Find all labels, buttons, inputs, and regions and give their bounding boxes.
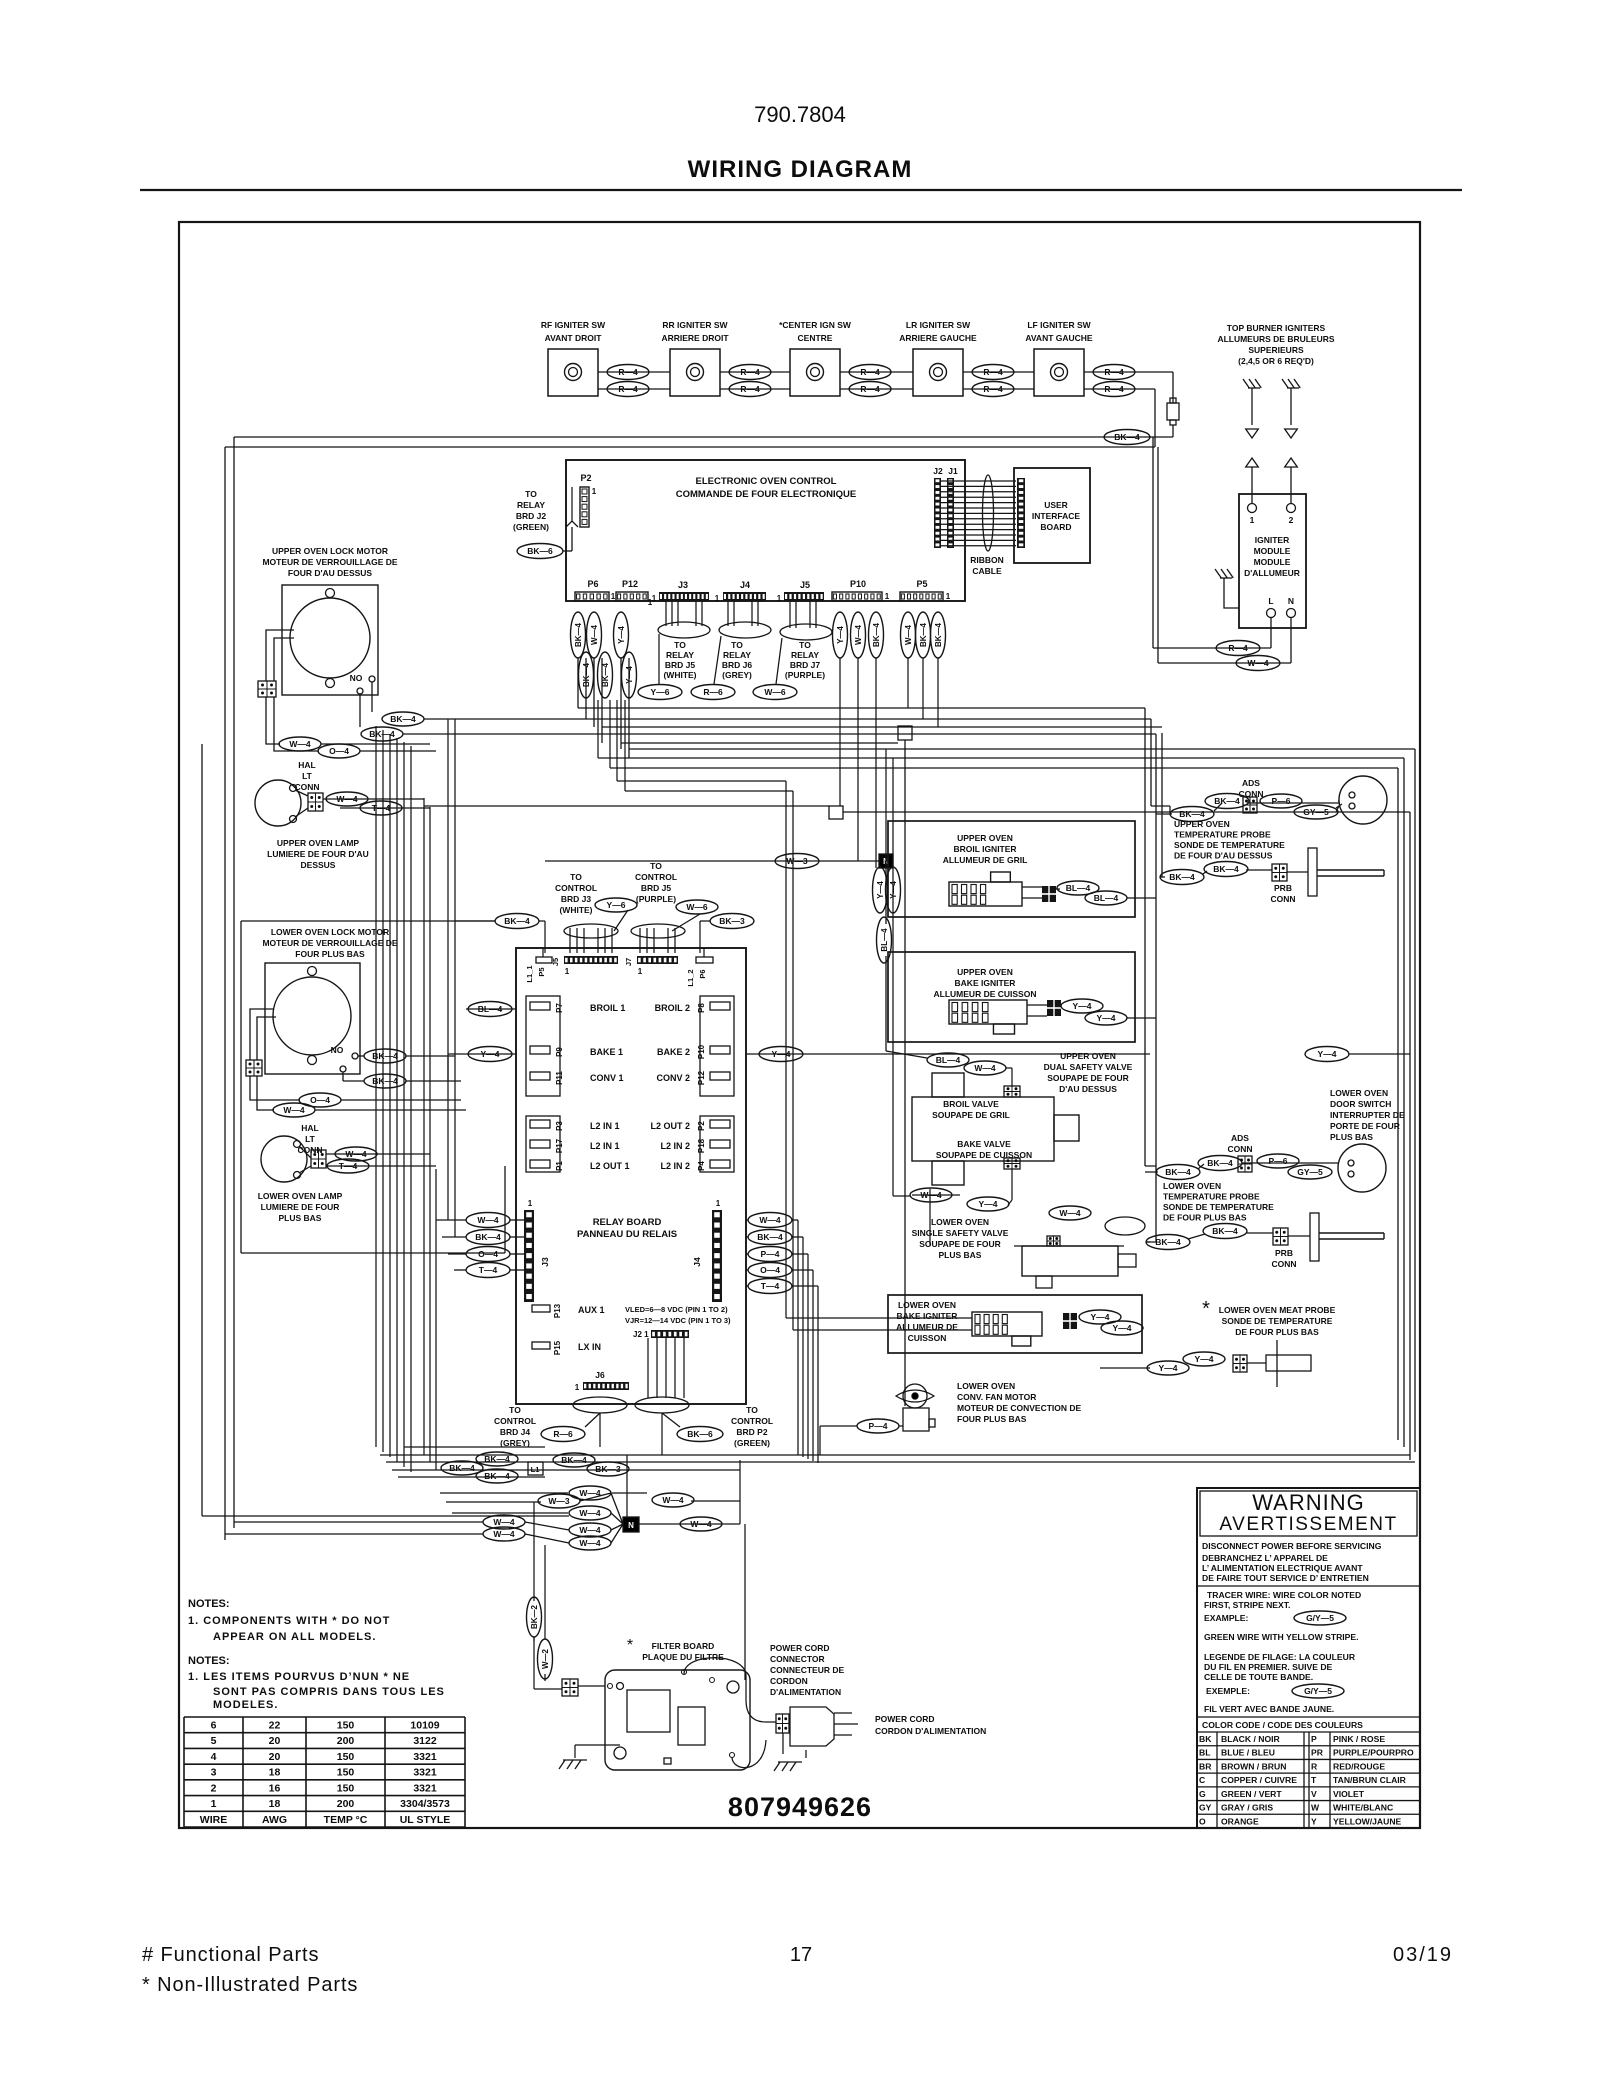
svg-text:GY: GY: [1199, 1803, 1212, 1813]
svg-text:POWER CORD: POWER CORD: [770, 1643, 830, 1653]
svg-text:1: 1: [638, 967, 643, 976]
svg-text:SONT PAS COMPRIS DANS TOUS LES: SONT PAS COMPRIS DANS TOUS LES: [213, 1686, 445, 1698]
svg-text:BK—4: BK—4: [1114, 432, 1140, 442]
svg-text:P4: P4: [697, 1161, 706, 1171]
svg-text:BAKE IGNITER: BAKE IGNITER: [955, 978, 1016, 988]
svg-text:UPPER OVEN: UPPER OVEN: [957, 833, 1013, 843]
svg-text:R—4: R—4: [618, 367, 638, 377]
svg-text:BROIL IGNITER: BROIL IGNITER: [953, 844, 1016, 854]
svg-text:Y—4: Y—4: [1091, 1312, 1110, 1322]
svg-text:*: *: [1202, 1298, 1210, 1320]
svg-text:P6: P6: [587, 579, 598, 589]
svg-text:1. COMPONENTS WITH * DO NO: 1. COMPONENTS WITH * DO NOT: [188, 1615, 390, 1627]
svg-text:BRD J3: BRD J3: [561, 894, 592, 904]
svg-text:W—4: W—4: [477, 1215, 499, 1225]
svg-text:TEMPERATURE PROBE: TEMPERATURE PROBE: [1163, 1192, 1260, 1202]
svg-text:CONTROL: CONTROL: [635, 872, 677, 882]
svg-text:FIRST, STRIPE NEXT.: FIRST, STRIPE NEXT.: [1204, 1600, 1290, 1610]
svg-text:LX IN: LX IN: [578, 1342, 601, 1352]
svg-text:LOWER OVEN: LOWER OVEN: [1330, 1088, 1388, 1098]
svg-text:W—4: W—4: [579, 1525, 601, 1535]
svg-text:DE FOUR PLUS BAS: DE FOUR PLUS BAS: [1163, 1213, 1247, 1223]
svg-text:VIOLET: VIOLET: [1333, 1789, 1365, 1799]
svg-text:L2 IN 1: L2 IN 1: [590, 1121, 620, 1131]
svg-text:T—4: T—4: [761, 1281, 780, 1291]
svg-text:20: 20: [269, 1751, 281, 1763]
svg-text:L: L: [1268, 596, 1273, 606]
svg-text:HAL: HAL: [301, 1123, 318, 1133]
svg-text:CONN: CONN: [1270, 894, 1295, 904]
svg-text:DE FOUR D'AU DESSUS: DE FOUR D'AU DESSUS: [1174, 851, 1273, 861]
svg-text:W—6: W—6: [764, 687, 786, 697]
svg-text:PLUS BAS: PLUS BAS: [939, 1250, 982, 1260]
svg-text:G: G: [1199, 1789, 1206, 1799]
svg-text:LOWER OVEN MEAT PROBE: LOWER OVEN MEAT PROBE: [1219, 1305, 1336, 1315]
svg-text:N: N: [628, 1521, 634, 1530]
svg-text:GY—5: GY—5: [1303, 807, 1329, 817]
svg-text:BK—4: BK—4: [504, 916, 530, 926]
svg-text:BK—4: BK—4: [1169, 872, 1195, 882]
svg-text:BLUE / BLEU: BLUE / BLEU: [1221, 1748, 1275, 1758]
svg-text:D'ALIMENTATION: D'ALIMENTATION: [770, 1687, 841, 1697]
svg-text:CONTROL: CONTROL: [494, 1416, 536, 1426]
svg-text:Y—4: Y—4: [1113, 1323, 1132, 1333]
svg-text:DESSUS: DESSUS: [301, 860, 336, 870]
svg-text:BL—4: BL—4: [936, 1055, 961, 1065]
svg-text:SONDE DE TEMPERATURE: SONDE DE TEMPERATURE: [1222, 1316, 1333, 1326]
svg-text:INTERFACE: INTERFACE: [1032, 511, 1081, 521]
svg-text:BK—6: BK—6: [527, 546, 553, 556]
svg-text:RF IGNITER SW: RF IGNITER SW: [541, 320, 606, 330]
svg-text:W—3: W—3: [548, 1496, 570, 1506]
svg-text:Y—6: Y—6: [607, 900, 626, 910]
svg-text:1. LES ITEMS POURVUS D’NUN: 1. LES ITEMS POURVUS D’NUN * NE: [188, 1671, 410, 1683]
svg-text:AVANT DROIT: AVANT DROIT: [545, 333, 603, 343]
svg-text:BL—4: BL—4: [478, 1004, 503, 1014]
svg-text:UL STYLE: UL STYLE: [400, 1814, 451, 1826]
svg-text:RELAY: RELAY: [517, 500, 545, 510]
svg-text:LR IGNITER SW: LR IGNITER SW: [906, 320, 971, 330]
svg-text:MODULE: MODULE: [1254, 546, 1291, 556]
svg-text:LEGENDE DE FILAGE: LA: LEGENDE DE FILAGE: LA COULEUR: [1204, 1652, 1356, 1662]
svg-text:CONN: CONN: [294, 782, 319, 792]
svg-text:GY—5: GY—5: [1297, 1167, 1323, 1177]
svg-text:150: 150: [337, 1767, 355, 1779]
svg-text:L1_1: L1_1: [525, 965, 534, 982]
svg-text:P—4: P—4: [869, 1421, 888, 1431]
svg-text:J3: J3: [678, 580, 688, 590]
svg-text:150: 150: [337, 1751, 355, 1763]
svg-text:1: 1: [716, 1199, 721, 1208]
svg-text:PRB: PRB: [1275, 1248, 1293, 1258]
svg-text:Y—4: Y—4: [1159, 1363, 1178, 1373]
svg-text:BROIL 2: BROIL 2: [655, 1003, 690, 1013]
svg-text:RR IGNITER SW: RR IGNITER SW: [662, 320, 728, 330]
svg-text:TAN/BRUN CLAIR: TAN/BRUN CLAIR: [1333, 1775, 1407, 1785]
svg-text:R—4: R—4: [1104, 367, 1124, 377]
svg-text:Y—4: Y—4: [1073, 1001, 1092, 1011]
svg-text:CONNECTOR: CONNECTOR: [770, 1654, 825, 1664]
svg-text:T—4: T—4: [372, 803, 391, 813]
svg-text:V: V: [1311, 1789, 1317, 1799]
svg-text:BROWN / BRUN: BROWN / BRUN: [1221, 1761, 1286, 1771]
svg-text:BAKE VALVE: BAKE VALVE: [957, 1139, 1011, 1149]
svg-text:22: 22: [269, 1720, 281, 1732]
svg-text:R—6: R—6: [553, 1429, 573, 1439]
svg-text:P: P: [1311, 1734, 1317, 1744]
svg-text:J2: J2: [933, 466, 943, 476]
svg-text:AVANT GAUCHE: AVANT GAUCHE: [1025, 333, 1093, 343]
svg-text:DE FOUR PLUS BAS: DE FOUR PLUS BAS: [1235, 1327, 1319, 1337]
svg-text:O—4: O—4: [760, 1265, 780, 1275]
svg-text:L2 IN 2: L2 IN 2: [660, 1141, 690, 1151]
svg-text:2: 2: [1289, 515, 1294, 525]
svg-text:CONV 1: CONV 1: [590, 1073, 624, 1083]
svg-text:W—6: W—6: [686, 902, 708, 912]
svg-text:EXEMPLE:: EXEMPLE:: [1206, 1686, 1250, 1696]
svg-text:COMMANDE DE FOUR ELECTRONIQUE: COMMANDE DE FOUR ELECTRONIQUE: [676, 489, 857, 500]
svg-text:UPPER OVEN: UPPER OVEN: [1060, 1051, 1116, 1061]
svg-text:POWER CORD: POWER CORD: [875, 1714, 935, 1724]
svg-text:LUMIERE DE FOUR D'AU: LUMIERE DE FOUR D'AU: [267, 849, 369, 859]
svg-text:BK—4: BK—4: [1179, 809, 1205, 819]
svg-text:P—6: P—6: [1269, 1156, 1288, 1166]
svg-text:Y—4: Y—4: [836, 626, 845, 644]
svg-text:BLACK / NOIR: BLACK / NOIR: [1221, 1734, 1281, 1744]
svg-text:BK—4: BK—4: [1213, 864, 1239, 874]
svg-text:FIL VERT AVEC BANDE JA: FIL VERT AVEC BANDE JAUNE.: [1204, 1704, 1334, 1714]
svg-text:(GREEN): (GREEN): [513, 522, 549, 532]
svg-text:20: 20: [269, 1735, 281, 1747]
svg-text:Y—4: Y—4: [979, 1199, 998, 1209]
svg-text:D'AU DESSUS: D'AU DESSUS: [1059, 1084, 1117, 1094]
svg-text:BRD J5: BRD J5: [641, 883, 672, 893]
svg-text:1: 1: [1250, 515, 1255, 525]
svg-text:MOTEUR DE VERROUILLAGE DE: MOTEUR DE VERROUILLAGE DE: [262, 938, 397, 948]
svg-text:Y—6: Y—6: [651, 687, 670, 697]
svg-text:FILTER BOARD: FILTER BOARD: [652, 1641, 715, 1651]
svg-text:WHITE/BLANC: WHITE/BLANC: [1333, 1803, 1393, 1813]
svg-text:W—4: W—4: [283, 1105, 305, 1115]
svg-text:MOTEUR DE CONVECTION DE: MOTEUR DE CONVECTION DE: [957, 1403, 1082, 1413]
svg-text:GREEN / VERT: GREEN / VERT: [1221, 1789, 1282, 1799]
svg-text:BK—4: BK—4: [561, 1455, 587, 1465]
svg-text:Y—4: Y—4: [772, 1049, 791, 1059]
svg-text:W—4: W—4: [579, 1538, 601, 1548]
svg-text:UPPER OVEN: UPPER OVEN: [1174, 819, 1230, 829]
svg-text:BK—4: BK—4: [475, 1232, 501, 1242]
svg-text:PLUS BAS: PLUS BAS: [279, 1213, 322, 1223]
svg-text:BK—4: BK—4: [919, 622, 928, 647]
svg-text:BK—4: BK—4: [449, 1463, 475, 1473]
svg-text:J2 1: J2 1: [633, 1330, 649, 1339]
svg-text:BAKE 1: BAKE 1: [590, 1047, 623, 1057]
svg-text:LOWER OVEN: LOWER OVEN: [898, 1300, 956, 1310]
svg-text:1: 1: [575, 1383, 580, 1392]
svg-text:1: 1: [528, 1199, 533, 1208]
svg-text:ARRIERE GAUCHE: ARRIERE GAUCHE: [899, 333, 977, 343]
svg-text:*CENTER IGN SW: *CENTER IGN SW: [779, 320, 852, 330]
svg-text:BK: BK: [1199, 1734, 1212, 1744]
svg-text:TO: TO: [570, 872, 582, 882]
svg-text:PR: PR: [1311, 1748, 1324, 1758]
svg-text:R—4: R—4: [983, 367, 1003, 377]
svg-text:G/Y—5: G/Y—5: [1306, 1613, 1334, 1623]
svg-text:ALLUMEUR DE CUISSON: ALLUMEUR DE CUISSON: [934, 989, 1037, 999]
svg-text:NO: NO: [331, 1045, 344, 1055]
svg-text:W—3: W—3: [786, 856, 808, 866]
svg-text:PANNEAU DU RELAIS: PANNEAU DU RELAIS: [577, 1229, 677, 1240]
svg-text:BRD J4: BRD J4: [500, 1427, 531, 1437]
svg-text:LT: LT: [302, 771, 313, 781]
svg-text:PURPLE/POURPRO: PURPLE/POURPRO: [1333, 1748, 1414, 1758]
svg-text:P10: P10: [850, 579, 866, 589]
svg-text:ALLUMEUR DE GRIL: ALLUMEUR DE GRIL: [943, 855, 1028, 865]
svg-text:BRD J6: BRD J6: [722, 660, 753, 670]
svg-text:SOUPAPE DE FOUR: SOUPAPE DE FOUR: [919, 1239, 1001, 1249]
svg-text:VLED=6—8 VDC (PIN 1 TO 2): VLED=6—8 VDC (PIN 1 TO 2): [625, 1305, 728, 1314]
svg-text:BL—4: BL—4: [1066, 883, 1091, 893]
svg-text:TO: TO: [525, 489, 537, 499]
svg-text:BK—4: BK—4: [1207, 1158, 1233, 1168]
svg-text:WIRING DIAGRAM: WIRING DIAGRAM: [688, 156, 913, 183]
svg-text:LUMIERE DE FOUR: LUMIERE DE FOUR: [261, 1202, 340, 1212]
svg-text:BR: BR: [1199, 1761, 1212, 1771]
svg-text:CONV. FAN MOTOR: CONV. FAN MOTOR: [957, 1392, 1036, 1402]
svg-text:R: R: [1311, 1761, 1318, 1771]
svg-text:J5: J5: [800, 580, 810, 590]
svg-text:1: 1: [715, 594, 720, 603]
svg-text:FOUR D'AU DESSUS: FOUR D'AU DESSUS: [288, 568, 373, 578]
svg-text:TO: TO: [731, 640, 743, 650]
svg-text:L2 IN 2: L2 IN 2: [660, 1161, 690, 1171]
svg-text:1: 1: [611, 592, 616, 601]
svg-text:W—4: W—4: [1059, 1208, 1081, 1218]
svg-text:BRD J7: BRD J7: [790, 660, 821, 670]
svg-text:150: 150: [337, 1782, 355, 1794]
svg-text:BK—4: BK—4: [757, 1232, 783, 1242]
svg-text:VJR=12—14 VDC (PIN 1 TO 3): VJR=12—14 VDC (PIN 1 TO 3): [625, 1316, 731, 1325]
svg-text:CONTROL: CONTROL: [555, 883, 597, 893]
svg-text:W—4: W—4: [854, 624, 863, 645]
svg-text:3122: 3122: [413, 1735, 437, 1747]
svg-text:BK—4: BK—4: [872, 622, 881, 647]
svg-text:NO: NO: [350, 673, 363, 683]
svg-text:HAL: HAL: [298, 760, 315, 770]
svg-text:UPPER OVEN LOCK MOTOR: UPPER OVEN LOCK MOTOR: [272, 546, 388, 556]
svg-text:W—4: W—4: [662, 1495, 684, 1505]
svg-text:NOTES:: NOTES:: [188, 1598, 230, 1610]
svg-text:P8: P8: [697, 1003, 706, 1013]
svg-text:18: 18: [269, 1767, 281, 1779]
svg-text:W—4: W—4: [289, 739, 311, 749]
svg-text:200: 200: [337, 1735, 355, 1747]
svg-text:TEMP °C: TEMP °C: [324, 1814, 368, 1826]
svg-text:150: 150: [337, 1720, 355, 1732]
svg-text:3321: 3321: [413, 1782, 437, 1794]
svg-text:P17: P17: [555, 1138, 564, 1153]
svg-text:TO: TO: [650, 861, 662, 871]
svg-text:WIRE: WIRE: [200, 1814, 227, 1826]
svg-text:GRAY / GRIS: GRAY / GRIS: [1221, 1803, 1273, 1813]
svg-text:J7: J7: [624, 958, 633, 966]
svg-text:SOUPAPE DE FOUR: SOUPAPE DE FOUR: [1047, 1073, 1129, 1083]
svg-text:NOTES:: NOTES:: [188, 1655, 230, 1667]
svg-text:COLOR CODE / CODE DES: COLOR CODE / CODE DES COULEURS: [1202, 1720, 1363, 1730]
svg-text:UPPER OVEN: UPPER OVEN: [957, 967, 1013, 977]
svg-text:RELAY: RELAY: [666, 650, 694, 660]
svg-text:P9: P9: [555, 1047, 564, 1057]
svg-text:(WHITE): (WHITE): [559, 905, 592, 915]
svg-text:(WHITE): (WHITE): [663, 670, 696, 680]
svg-text:BRD J2: BRD J2: [516, 511, 547, 521]
svg-text:Y—4: Y—4: [1097, 1013, 1116, 1023]
svg-text:TEMPERATURE PROBE: TEMPERATURE PROBE: [1174, 830, 1271, 840]
svg-text:SOUPAPE DE GRIL: SOUPAPE DE GRIL: [932, 1110, 1010, 1120]
svg-text:R—6: R—6: [703, 687, 723, 697]
svg-text:W—4: W—4: [1247, 658, 1269, 668]
svg-text:CUISSON: CUISSON: [908, 1333, 947, 1343]
svg-text:SUPERIEURS: SUPERIEURS: [1248, 345, 1304, 355]
svg-text:PLAQUE DU FILTRE: PLAQUE DU FILTRE: [642, 1652, 724, 1662]
svg-text:W—4: W—4: [904, 624, 913, 645]
svg-text:ADS: ADS: [1231, 1133, 1249, 1143]
svg-text:Y—4: Y—4: [481, 1049, 500, 1059]
svg-text:USER: USER: [1044, 500, 1068, 510]
svg-text:(PURPLE): (PURPLE): [785, 670, 825, 680]
svg-text:FOUR PLUS BAS: FOUR PLUS BAS: [957, 1414, 1027, 1424]
svg-text:BK—4: BK—4: [934, 622, 943, 647]
svg-text:W—4: W—4: [759, 1215, 781, 1225]
svg-text:T—4: T—4: [479, 1265, 498, 1275]
svg-text:LOWER OVEN: LOWER OVEN: [957, 1381, 1015, 1391]
svg-text:BOARD: BOARD: [1040, 522, 1071, 532]
svg-text:TOP BURNER IGNITERS: TOP BURNER IGNITERS: [1227, 323, 1326, 333]
svg-text:ORANGE: ORANGE: [1221, 1816, 1259, 1826]
svg-text:BK—4: BK—4: [484, 1471, 510, 1481]
svg-text:R—4: R—4: [740, 367, 760, 377]
svg-text:P5: P5: [916, 579, 927, 589]
svg-text:LOWER OVEN LOCK MOTOR: LOWER OVEN LOCK MOTOR: [271, 927, 389, 937]
svg-text:BRD P2: BRD P2: [736, 1427, 767, 1437]
svg-text:W—4: W—4: [579, 1508, 601, 1518]
svg-text:CORDON: CORDON: [770, 1676, 808, 1686]
svg-text:R—4: R—4: [740, 384, 760, 394]
svg-text:Y—4: Y—4: [1318, 1049, 1337, 1059]
svg-text:T—4: T—4: [339, 1161, 358, 1171]
svg-text:3321: 3321: [413, 1767, 437, 1779]
svg-text:W—4: W—4: [336, 794, 358, 804]
svg-text:BK—4: BK—4: [1165, 1167, 1191, 1177]
svg-text:P12: P12: [697, 1070, 706, 1085]
svg-text:W: W: [1311, 1803, 1320, 1813]
svg-text:GREEN WIRE WITH YELLOW STR: GREEN WIRE WITH YELLOW STRIPE.: [1204, 1632, 1359, 1642]
svg-text:P6: P6: [698, 969, 707, 978]
svg-text:W—2: W—2: [541, 1648, 550, 1669]
svg-text:COPPER / CUIVRE: COPPER / CUIVRE: [1221, 1775, 1297, 1785]
svg-text:6: 6: [211, 1720, 217, 1732]
svg-text:P18: P18: [697, 1138, 706, 1153]
svg-text:L2 IN 1: L2 IN 1: [590, 1141, 620, 1151]
svg-text:BL—4: BL—4: [880, 928, 889, 952]
svg-text:BL: BL: [1199, 1748, 1210, 1758]
svg-text:BK—4: BK—4: [1155, 1237, 1181, 1247]
svg-text:CORDON D'ALIMENTATION: CORDON D'ALIMENTATION: [875, 1726, 986, 1736]
svg-text:CONN: CONN: [1271, 1259, 1296, 1269]
svg-text:DU FIL EN PREMIER. SU: DU FIL EN PREMIER. SUIVE DE: [1204, 1662, 1333, 1672]
svg-text:P2: P2: [697, 1121, 706, 1131]
svg-text:BRD J5: BRD J5: [665, 660, 696, 670]
svg-text:3321: 3321: [413, 1751, 437, 1763]
svg-text:1: 1: [885, 592, 890, 601]
svg-text:2: 2: [211, 1782, 217, 1794]
svg-text:807949626: 807949626: [728, 1792, 872, 1822]
svg-text:BL—4: BL—4: [1094, 893, 1119, 903]
svg-text:(PURPLE): (PURPLE): [636, 894, 676, 904]
svg-text:BAKE IGNITER: BAKE IGNITER: [897, 1311, 958, 1321]
svg-text:P3: P3: [555, 1121, 564, 1131]
svg-text:CONTROL: CONTROL: [731, 1416, 773, 1426]
svg-text:3304/3573: 3304/3573: [400, 1798, 450, 1810]
svg-text:* Non-Illustrated Parts: * Non-Illustrated Parts: [142, 1974, 358, 1996]
svg-text:G/Y—5: G/Y—5: [1304, 1686, 1332, 1696]
svg-text:W—4: W—4: [345, 1149, 367, 1159]
svg-text:EXAMPLE:: EXAMPLE:: [1204, 1613, 1249, 1623]
svg-text:BK—3: BK—3: [595, 1464, 621, 1474]
svg-text:CABLE: CABLE: [972, 566, 1002, 576]
svg-text:J3: J3: [540, 1257, 550, 1267]
svg-text:LOWER OVEN: LOWER OVEN: [1163, 1181, 1221, 1191]
svg-text:P—4: P—4: [761, 1249, 780, 1259]
svg-text:SONDE DE TEMPERATURE: SONDE DE TEMPERATURE: [1163, 1202, 1274, 1212]
svg-text:T: T: [1311, 1775, 1317, 1785]
svg-text:ELECTRONIC OVEN CONTROL: ELECTRONIC OVEN CONTROL: [696, 476, 837, 487]
svg-text:J4: J4: [692, 1257, 702, 1267]
svg-text:O: O: [1199, 1816, 1206, 1826]
svg-text:P13: P13: [553, 1303, 562, 1318]
svg-text:P—6: P—6: [1272, 796, 1291, 806]
svg-text:BK—6: BK—6: [687, 1429, 713, 1439]
svg-text:RELAY BOARD: RELAY BOARD: [593, 1217, 662, 1228]
svg-text:L’ ALIMENTATION ELECTRIQUE: L’ ALIMENTATION ELECTRIQUE AVANT: [1202, 1563, 1363, 1573]
svg-text:MODULE: MODULE: [1254, 557, 1291, 567]
svg-text:R—4: R—4: [983, 384, 1003, 394]
svg-text:LF IGNITER SW: LF IGNITER SW: [1027, 320, 1091, 330]
svg-text:P15: P15: [553, 1340, 562, 1355]
svg-text:W—4: W—4: [493, 1529, 515, 1539]
svg-text:N: N: [1288, 596, 1294, 606]
svg-text:1: 1: [777, 594, 782, 603]
svg-text:L2 OUT 2: L2 OUT 2: [650, 1121, 690, 1131]
svg-text:1: 1: [592, 487, 597, 496]
svg-text:BAKE 2: BAKE 2: [657, 1047, 690, 1057]
svg-text:5: 5: [211, 1735, 217, 1747]
svg-text:ARRIERE DROIT: ARRIERE DROIT: [661, 333, 729, 343]
svg-text:# Functional Parts: # Functional Parts: [142, 1944, 319, 1966]
svg-text:TO: TO: [799, 640, 811, 650]
svg-text:W—4: W—4: [590, 624, 599, 645]
svg-text:Y—4: Y—4: [876, 881, 885, 899]
svg-text:SONDE DE TEMPERATURE: SONDE DE TEMPERATURE: [1174, 840, 1285, 850]
svg-text:790.7804: 790.7804: [754, 102, 846, 127]
svg-text:Y—4: Y—4: [1195, 1354, 1214, 1364]
svg-text:J6: J6: [595, 1370, 605, 1380]
svg-text:03/19: 03/19: [1393, 1944, 1453, 1966]
svg-text:O—4: O—4: [329, 746, 349, 756]
svg-text:AWG: AWG: [262, 1814, 287, 1826]
svg-text:4: 4: [211, 1751, 217, 1763]
svg-text:W—4: W—4: [920, 1190, 942, 1200]
